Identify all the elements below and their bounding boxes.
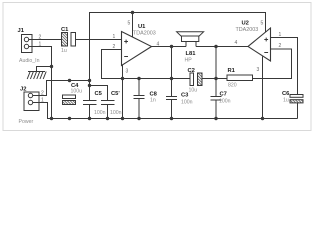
svg-text:R1: R1 [228, 68, 236, 74]
svg-text:1: 1 [41, 98, 44, 104]
svg-text:2: 2 [41, 91, 44, 97]
svg-text:L81: L81 [186, 51, 197, 57]
svg-text:C5: C5 [95, 91, 103, 97]
svg-text:2: 2 [39, 35, 42, 41]
svg-text:5: 5 [261, 21, 264, 27]
svg-text:1u: 1u [61, 48, 67, 54]
svg-text:4: 4 [235, 40, 238, 46]
svg-text:C6: C6 [282, 91, 290, 97]
svg-text:3: 3 [257, 67, 260, 73]
svg-text:10u: 10u [189, 88, 198, 94]
svg-text:J2: J2 [20, 87, 26, 93]
svg-text:C2: C2 [188, 68, 195, 74]
svg-text:100n: 100n [94, 110, 106, 116]
svg-text:HP: HP [185, 58, 193, 64]
svg-text:100n: 100n [110, 110, 122, 116]
svg-text:820: 820 [228, 83, 237, 89]
svg-text:C5': C5' [111, 91, 120, 97]
svg-text:2: 2 [113, 44, 116, 50]
svg-text:U1: U1 [138, 24, 146, 30]
svg-text:TDA2003: TDA2003 [236, 27, 259, 33]
svg-text:1: 1 [39, 42, 42, 48]
svg-text:TDA2003: TDA2003 [133, 31, 156, 37]
svg-text:3: 3 [126, 69, 129, 75]
svg-text:J1: J1 [18, 28, 25, 34]
svg-text:1n: 1n [150, 98, 156, 104]
svg-text:C7: C7 [220, 92, 227, 98]
svg-text:1: 1 [113, 34, 116, 40]
svg-text:100u: 100u [71, 89, 83, 95]
svg-text:100n: 100n [181, 100, 193, 106]
svg-text:Power: Power [19, 119, 34, 125]
svg-text:5: 5 [128, 21, 131, 27]
svg-text:Audio_In: Audio_In [19, 58, 40, 64]
svg-text:U2: U2 [242, 21, 249, 27]
svg-text:100n: 100n [219, 99, 231, 105]
svg-text:1: 1 [279, 32, 282, 38]
svg-text:2: 2 [279, 43, 282, 49]
svg-text:C1: C1 [61, 27, 69, 33]
svg-text:1u: 1u [283, 98, 289, 104]
svg-text:4: 4 [157, 42, 160, 48]
